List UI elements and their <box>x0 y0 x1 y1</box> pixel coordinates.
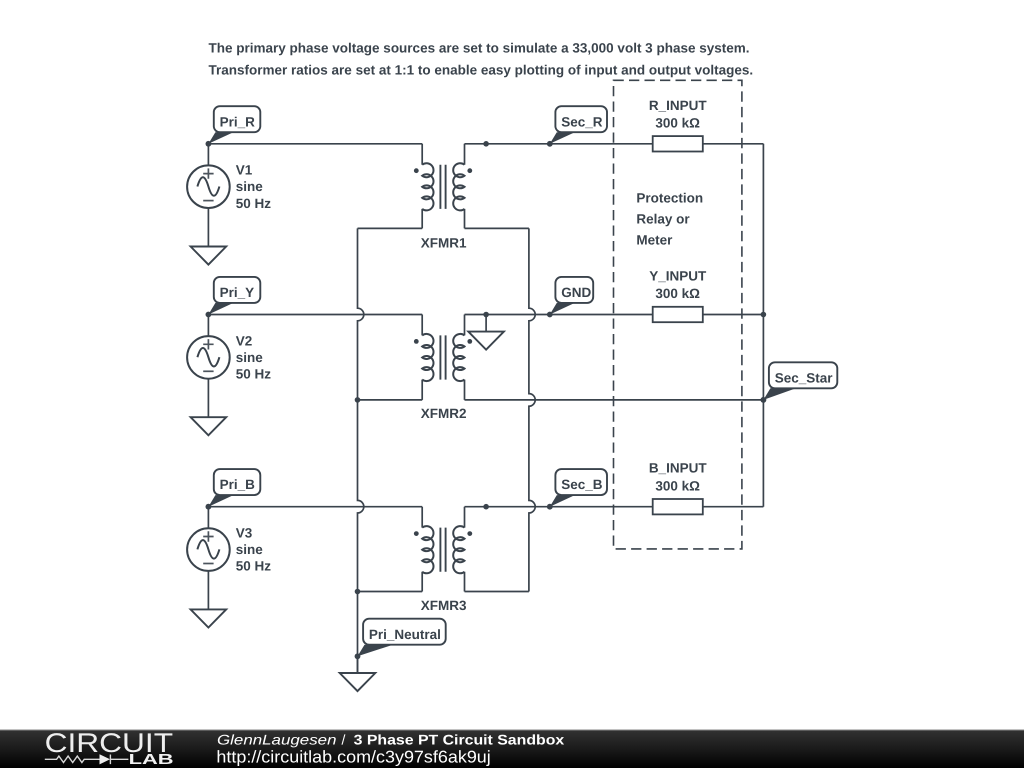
wire B_INPUT right <box>703 506 764 508</box>
transformer XFMR3 <box>414 507 472 614</box>
wire primary neutral bus with hops <box>358 228 364 673</box>
svg-text:300 kΩ: 300 kΩ <box>655 116 700 131</box>
svg-text:GND: GND <box>561 285 591 300</box>
svg-text:3 Phase PT Circuit Sandbox: 3 Phase PT Circuit Sandbox <box>354 731 565 747</box>
wire right bus <box>762 144 764 507</box>
transformer XFMR2 <box>414 315 472 422</box>
node Sec_Star <box>761 362 838 403</box>
svg-text:LAB: LAB <box>129 752 174 768</box>
wire Sec_Star row <box>465 399 764 401</box>
svg-text:Y_INPUT: Y_INPUT <box>649 269 707 284</box>
label Protection Relay or Meter <box>636 191 703 248</box>
svg-text:V2: V2 <box>236 333 253 348</box>
ground Pri_Neutral <box>340 656 376 691</box>
wire XFMR3 secondary bottom <box>465 591 529 593</box>
resistor R_INPUT <box>649 98 708 152</box>
svg-text:V1: V1 <box>236 163 253 178</box>
svg-text:GlennLaugesen: GlennLaugesen <box>217 731 337 747</box>
svg-text:Pri_Neutral: Pri_Neutral <box>369 627 441 642</box>
svg-text:Pri_R: Pri_R <box>220 114 256 129</box>
svg-text:/: / <box>342 731 346 747</box>
ground for V1 <box>191 247 227 265</box>
svg-text:R_INPUT: R_INPUT <box>649 98 708 113</box>
attribution text <box>216 731 564 766</box>
wire XFMR1 secondary bottom <box>465 227 529 229</box>
junction Sec_B wire <box>483 504 489 510</box>
ground for V3 <box>191 609 227 627</box>
svg-text:The primary phase voltage sour: The primary phase voltage sources are se… <box>209 41 750 56</box>
wire XFMR1 primary bottom <box>358 227 423 229</box>
svg-text:Pri_B: Pri_B <box>220 477 256 492</box>
wire Pri_R row <box>208 143 422 145</box>
voltage source V3 <box>187 507 271 610</box>
CircuitLab logo wordmark <box>45 728 174 768</box>
node Pri_R <box>206 106 261 147</box>
wire XFMR2 primary bottom <box>358 399 423 401</box>
svg-text:50 Hz: 50 Hz <box>236 367 272 382</box>
svg-text:XFMR2: XFMR2 <box>421 406 467 421</box>
transformer XFMR1 <box>414 144 472 251</box>
node GND <box>547 277 593 318</box>
node Pri_Y <box>206 277 261 318</box>
wire Sec_R row left <box>465 143 653 145</box>
svg-text:Sec_Star: Sec_Star <box>775 370 834 385</box>
svg-text:Pri_Y: Pri_Y <box>220 285 255 300</box>
svg-text:300 kΩ: 300 kΩ <box>655 478 700 493</box>
junction neutral bus / XFMR3 primary <box>355 589 361 595</box>
voltage source V2 <box>187 315 271 418</box>
wire Pri_B row <box>208 506 422 508</box>
node Sec_R <box>547 106 607 147</box>
svg-text:XFMR1: XFMR1 <box>421 235 467 250</box>
node Sec_B <box>547 469 607 510</box>
resistor B_INPUT <box>649 461 708 515</box>
junction right bus / Y_INPUT <box>761 312 767 318</box>
svg-text:XFMR3: XFMR3 <box>421 598 467 613</box>
junction neutral bus / XFMR2 primary <box>355 397 361 403</box>
svg-text:Relay or: Relay or <box>636 211 690 226</box>
junction right bus / Sec_Star <box>761 397 767 403</box>
svg-text:sine: sine <box>236 179 264 194</box>
ground on XFMR2 secondary <box>468 332 504 350</box>
wire Sec_Y row <box>465 314 653 316</box>
junction GND stub <box>483 312 489 318</box>
svg-text:sine: sine <box>236 542 264 557</box>
bottom bar <box>0 729 1024 768</box>
svg-text:Protection: Protection <box>636 191 703 206</box>
ground for V2 <box>191 417 227 435</box>
svg-text:V3: V3 <box>236 526 253 541</box>
svg-text:Sec_R: Sec_R <box>561 114 603 129</box>
wire Sec_B row <box>465 506 653 508</box>
node Pri_Neutral <box>355 619 446 659</box>
wire GND stub <box>485 315 487 332</box>
svg-text:http://circuitlab.com/c3y97sf6: http://circuitlab.com/c3y97sf6ak9uj <box>216 748 490 767</box>
svg-text:Sec_B: Sec_B <box>561 477 603 492</box>
wire Sec_R row right of R_INPUT <box>703 143 764 145</box>
svg-text:Meter: Meter <box>636 232 673 247</box>
resistor Y_INPUT <box>649 269 707 323</box>
node Pri_B <box>206 469 261 510</box>
svg-text:300 kΩ: 300 kΩ <box>655 286 700 301</box>
dashed box Protection Relay or Meter <box>614 80 742 549</box>
wire XFMR3 primary bottom <box>358 591 423 593</box>
wire secondary star bus with hops <box>529 228 535 591</box>
svg-text:50 Hz: 50 Hz <box>236 196 272 211</box>
svg-text:Transformer ratios are set at: Transformer ratios are set at 1:1 to ena… <box>209 63 754 78</box>
svg-text:50 Hz: 50 Hz <box>236 559 272 574</box>
svg-text:B_INPUT: B_INPUT <box>649 461 708 476</box>
voltage source V1 <box>187 144 271 247</box>
svg-text:sine: sine <box>236 350 264 365</box>
junction Sec_R wire <box>483 141 489 147</box>
wire Pri_Y row <box>208 314 422 316</box>
wire Y_INPUT right <box>703 314 764 316</box>
